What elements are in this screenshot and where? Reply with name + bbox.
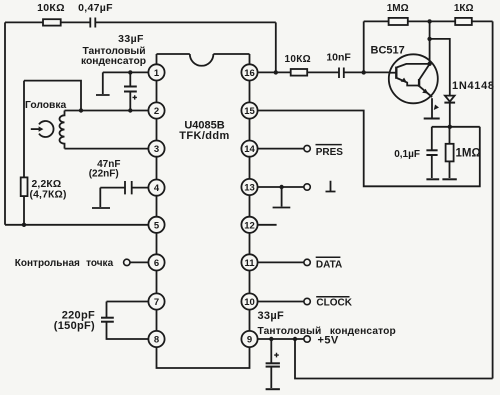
- ground symbol right of pin13 terminal: [326, 181, 336, 192]
- ground below 47nF: [92, 188, 110, 208]
- svg-text:14: 14: [244, 144, 255, 155]
- wire collector vertical: [429, 21, 431, 63]
- diode D1 1N4148: [444, 80, 494, 127]
- svg-text:10: 10: [244, 297, 255, 308]
- svg-text:Контрольная точка: Контрольная точка: [15, 258, 114, 269]
- wire right edge vertical: [492, 21, 494, 378]
- svg-text:(150pF): (150pF): [54, 320, 95, 332]
- wire pin3 horizontal: [65, 148, 149, 150]
- label Головка: [25, 100, 67, 111]
- pin 12: [241, 217, 257, 233]
- pin 11: [241, 254, 257, 270]
- label +5V: [318, 335, 339, 347]
- svg-text:4: 4: [154, 183, 160, 194]
- wire pin13 to terminal: [257, 184, 310, 190]
- capacitor C 220pF: [54, 309, 114, 332]
- svg-text:TFK/ddm: TFK/ddm: [179, 130, 229, 142]
- svg-text:2: 2: [154, 106, 159, 117]
- svg-text:2,2КΩ: 2,2КΩ: [32, 179, 62, 190]
- wire top-left corner vertical down to pin16 row: [275, 22, 277, 72]
- label CLOCK: [316, 297, 353, 309]
- wire RC top node: [432, 126, 480, 128]
- wire pin15 feedback loop: [257, 111, 479, 187]
- svg-text:3: 3: [154, 144, 159, 155]
- node junction collector top: [427, 19, 431, 23]
- pin 10: [241, 293, 257, 309]
- svg-text:конденсатор: конденсатор: [81, 56, 146, 67]
- pin 9: [241, 331, 257, 347]
- pin 14: [241, 141, 257, 157]
- capacitor C 33uF tantalum bottom: [266, 339, 280, 388]
- svg-text:15: 15: [244, 106, 255, 117]
- wire left vertical side: [4, 22, 6, 224]
- node junction 33uF bottom on pin2 wire: [128, 108, 132, 112]
- capacitor C 10nF: [326, 51, 351, 78]
- svg-text:Головка: Головка: [25, 100, 67, 111]
- pin 3: [148, 141, 164, 157]
- svg-text:1МΩ: 1МΩ: [387, 3, 409, 14]
- svg-text:33µF: 33µF: [258, 310, 285, 322]
- emitter arrowhead mark: [434, 105, 439, 111]
- ground terminal left of 33uF: [96, 72, 110, 95]
- pin 4: [148, 180, 164, 196]
- node junction 33uF bottom cap: [269, 337, 273, 341]
- wire +5V supply loop bottom: [295, 339, 493, 379]
- svg-text:12: 12: [244, 220, 255, 231]
- svg-text:0,47µF: 0,47µF: [78, 2, 113, 14]
- wire pin16 to base node: [257, 71, 389, 73]
- wire pin10 to CLOCK terminal: [257, 298, 310, 304]
- resistor R 2,2K vertical: [21, 81, 67, 225]
- node junction at pin16 wire: [274, 70, 278, 74]
- wire head branch top: [24, 81, 81, 111]
- svg-text:5: 5: [154, 220, 160, 231]
- resistor R 1M top: [387, 3, 409, 25]
- svg-text:13: 13: [244, 183, 255, 194]
- pin 6: [148, 254, 164, 270]
- svg-text:8: 8: [154, 335, 159, 346]
- svg-text:1N4148: 1N4148: [452, 80, 495, 92]
- capacitor C 47nF: [89, 159, 132, 194]
- wire pin1 horizontal: [103, 71, 149, 73]
- pin 5: [148, 217, 164, 233]
- pin 15: [241, 102, 257, 118]
- resistor R 1M right: [446, 127, 481, 178]
- test point terminal pin6: [15, 258, 149, 269]
- svg-text:(22nF): (22nF): [89, 169, 119, 180]
- wire jog to diode: [430, 39, 450, 96]
- svg-text:DATA: DATA: [316, 259, 342, 270]
- pin 2: [148, 102, 164, 118]
- wire pin9 to +5V terminal: [257, 336, 310, 342]
- svg-text:16: 16: [244, 68, 255, 79]
- svg-text:PRES: PRES: [316, 147, 344, 158]
- ground below 33uF bottom: [266, 388, 280, 390]
- wire pin5 horizontal: [5, 224, 149, 226]
- svg-text:0,1µF: 0,1µF: [394, 149, 420, 160]
- ground stub pin13: [273, 187, 291, 208]
- resistor R 10K top-left: [37, 2, 65, 26]
- svg-text:10nF: 10nF: [326, 51, 351, 63]
- svg-text:1: 1: [154, 68, 160, 79]
- wire pin4 horizontal: [100, 187, 148, 189]
- wire pin12 stub: [257, 224, 276, 226]
- ground below 0,1uF: [426, 178, 439, 180]
- node junction pin13 ground: [279, 185, 283, 189]
- label 33uF tantalum bottom: [258, 310, 396, 337]
- node junction base: [362, 70, 366, 74]
- node junction 33uF top: [128, 70, 132, 74]
- wire top-right horizontal: [364, 20, 493, 22]
- svg-text:BC517: BC517: [371, 44, 405, 56]
- wire pin8 horizontal: [107, 322, 149, 339]
- inductor head coil L1: [59, 111, 64, 149]
- pin 13: [241, 179, 257, 195]
- svg-text:Тантоловый конденсатор: Тантоловый конденсатор: [258, 326, 396, 337]
- svg-text:1КΩ: 1КΩ: [454, 3, 474, 14]
- node junction diode branch: [427, 37, 431, 41]
- IC U1 U4085B body: [157, 54, 250, 368]
- svg-text:10КΩ: 10КΩ: [37, 2, 65, 14]
- wire pin11 to DATA terminal: [257, 259, 310, 265]
- svg-text:7: 7: [154, 297, 159, 308]
- svg-text:CLOCK: CLOCK: [316, 298, 352, 309]
- label 33uF tantalum top: [81, 33, 146, 67]
- label PRES: [316, 145, 344, 158]
- wire emitter to ground: [431, 98, 433, 117]
- svg-text:(4,7КΩ): (4,7КΩ): [30, 190, 67, 201]
- svg-text:9: 9: [247, 335, 252, 346]
- svg-text:33µF: 33µF: [118, 33, 144, 45]
- node junction collector: [427, 62, 431, 66]
- node junction 2,2K bottom: [22, 223, 26, 227]
- wire top-left horizontal: [5, 21, 276, 23]
- capacitor C 0,1uF: [394, 127, 437, 178]
- svg-text:6: 6: [154, 258, 159, 269]
- pin 8: [148, 331, 164, 347]
- resistor R 10K right: [284, 54, 310, 76]
- wire 1M top left vertical: [363, 21, 365, 72]
- capacitor 0,47uF: [78, 2, 113, 28]
- wire pin7 horizontal: [107, 302, 149, 318]
- label DATA: [316, 257, 342, 270]
- node junction head branch on pin2 wire: [79, 108, 83, 112]
- wire pin14 to PRES terminal: [257, 145, 310, 151]
- capacitor C 33uF tantalum top: [124, 72, 137, 110]
- node junction +5V loop: [293, 337, 297, 341]
- svg-text:11: 11: [244, 258, 255, 269]
- pin 1: [148, 64, 164, 80]
- pin 7: [148, 293, 164, 309]
- ground below transistor: [424, 118, 440, 120]
- wire pin2 horizontal: [65, 110, 149, 112]
- transistor Q1 BC517: [371, 44, 438, 103]
- svg-text:10КΩ: 10КΩ: [284, 54, 310, 65]
- tape head symbol circle with arrow: [31, 121, 54, 137]
- pin 16: [241, 64, 257, 80]
- resistor R 1K top: [454, 3, 474, 25]
- node junction diode RC: [448, 125, 452, 129]
- ground below 1M right: [442, 178, 456, 180]
- svg-text:1МΩ: 1МΩ: [456, 148, 481, 160]
